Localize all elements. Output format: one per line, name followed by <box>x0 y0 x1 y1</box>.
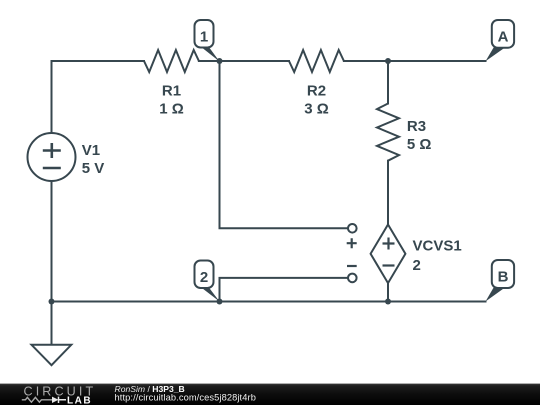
dependent source VCVS1 (diamond) <box>371 225 406 284</box>
svg-text:A: A <box>498 29 509 46</box>
wire bottom rail left segment <box>52 301 220 303</box>
svg-text:B: B <box>498 269 509 286</box>
svg-text:LAB: LAB <box>67 396 92 405</box>
svg-text:3 Ω: 3 Ω <box>304 101 329 118</box>
svg-text:R2: R2 <box>307 83 326 100</box>
resistor R2 <box>289 50 344 72</box>
svg-text:http://circuitlab.com/ces5j828: http://circuitlab.com/ces5j828jt4rb <box>115 393 256 403</box>
junction dot VCVS bottom <box>385 299 391 305</box>
svg-text:5 V: 5 V <box>82 160 105 177</box>
svg-text:VCVS1: VCVS1 <box>413 238 462 255</box>
junction dot top of R3 <box>385 58 391 64</box>
svg-text:V1: V1 <box>82 142 100 159</box>
node 2 flag <box>195 261 220 302</box>
svg-text:R1: R1 <box>162 83 181 100</box>
voltage source V1 <box>28 133 76 181</box>
ground <box>32 345 72 365</box>
wire node 1 down and right to VCVS plus control terminal <box>220 61 349 228</box>
wire junction down to R3 top <box>387 61 389 104</box>
resistor R1 <box>144 50 199 72</box>
wire bottom rail middle segment <box>220 301 389 303</box>
wire R3 bottom to VCVS1 top <box>387 161 389 225</box>
wire VCVS1 bottom to bottom rail <box>387 283 389 301</box>
wire node 2 up and right to VCVS minus control terminal <box>220 278 349 302</box>
wire R2 to top junction at R3 <box>344 60 388 62</box>
junction dot at ground tap <box>49 299 55 305</box>
resistor R3 <box>377 104 399 161</box>
svg-text:1: 1 <box>200 28 208 45</box>
junction node 2 dot <box>217 299 223 305</box>
wire from V1 top up and right to R1 <box>52 61 145 133</box>
VCVS minus control terminal (open circle) <box>348 274 357 283</box>
svg-text:5 Ω: 5 Ω <box>407 136 432 153</box>
wire top junction to node A <box>388 60 486 62</box>
svg-text:2: 2 <box>413 257 421 274</box>
VCVS plus control terminal (open circle) <box>348 224 357 233</box>
node B flag <box>486 260 515 302</box>
svg-text:1 Ω: 1 Ω <box>159 101 184 118</box>
svg-text:R3: R3 <box>407 118 426 135</box>
node 1 flag <box>195 20 220 62</box>
wire node 1 junction to R2 <box>220 60 290 62</box>
junction node 1 dot <box>217 58 223 64</box>
wire bottom rail to node B <box>388 301 486 303</box>
logo resistor zigzag <box>22 397 52 402</box>
svg-text:2: 2 <box>200 269 208 286</box>
wire R1 to node 1 junction <box>199 60 220 62</box>
plus mark at control port <box>347 238 357 248</box>
minus mark at control port <box>347 265 357 267</box>
footer bar <box>0 384 540 405</box>
logo diode symbol <box>52 397 66 403</box>
node A flag <box>486 20 515 61</box>
wire V1 bottom down to ground <box>51 181 53 345</box>
